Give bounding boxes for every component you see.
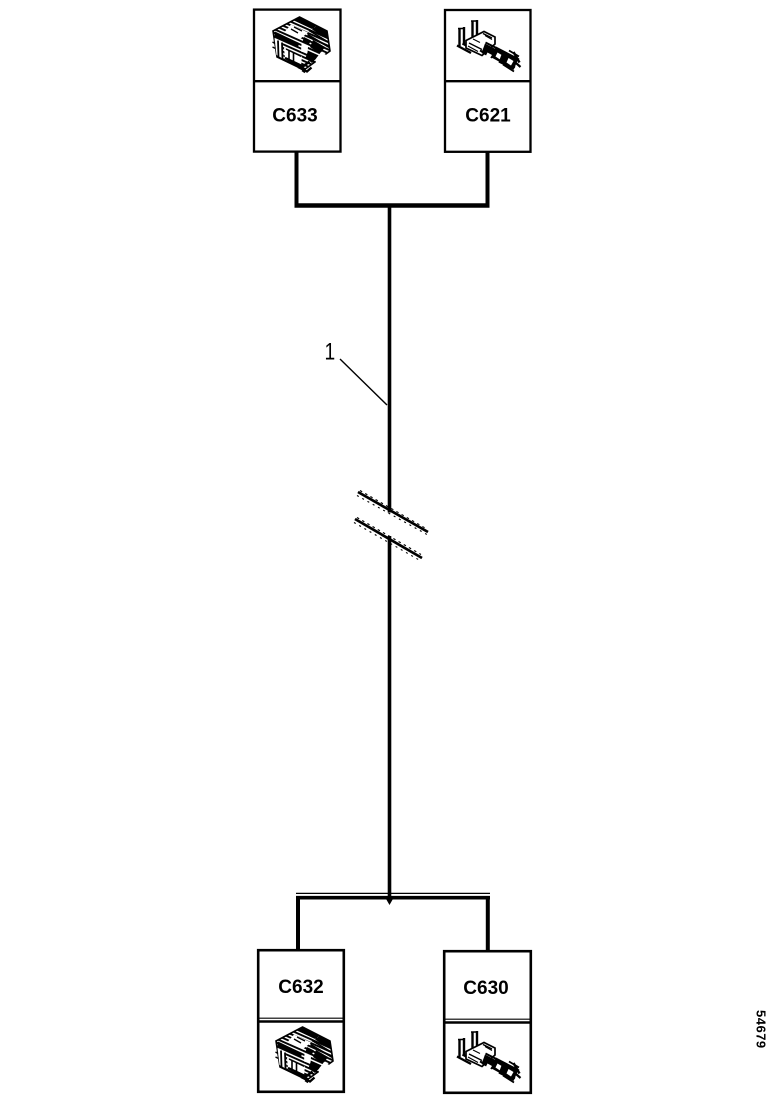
svg-text:C621: C621	[465, 106, 511, 127]
svg-text:1: 1	[325, 337, 336, 365]
leader line for callout 1	[340, 359, 387, 405]
divider C630 box	[444, 1021, 531, 1024]
connector box C621 (top-right)	[445, 10, 531, 152]
connector icon C630	[457, 1031, 521, 1083]
junction arrow at bottom bar	[386, 898, 394, 905]
divider C632 box	[258, 1020, 344, 1023]
wire drop to C630	[486, 896, 490, 951]
connector icon C633	[273, 17, 331, 73]
connector box C632 (bottom-left)	[258, 950, 344, 1092]
break mark upper slash	[357, 491, 428, 535]
break mark lower slash	[354, 518, 422, 561]
svg-text:C630: C630	[463, 978, 508, 999]
svg-text:C633: C633	[272, 106, 317, 127]
top harness bar	[295, 203, 490, 208]
divider C621 box	[445, 80, 531, 82]
bottom harness bar thin ghost line	[296, 892, 490, 894]
main harness wire upper segment	[388, 205, 392, 513]
svg-text:54679: 54679	[754, 1010, 769, 1049]
connector icon C621	[457, 20, 521, 72]
connector icon C632	[276, 1027, 334, 1083]
main harness wire lower segment	[388, 536, 392, 898]
wire drop to C632	[296, 896, 300, 950]
wire stub from C633	[295, 152, 299, 208]
connector box C630 (bottom-right)	[444, 951, 531, 1093]
divider C633 box	[254, 80, 341, 82]
bottom harness bar	[296, 896, 490, 900]
wire stub from C621	[486, 152, 490, 208]
svg-text:C632: C632	[278, 977, 323, 998]
divider C630 box ghost line	[444, 1018, 531, 1020]
divider C632 box ghost line	[258, 1017, 344, 1019]
connector box C633 (top-left)	[254, 10, 341, 152]
